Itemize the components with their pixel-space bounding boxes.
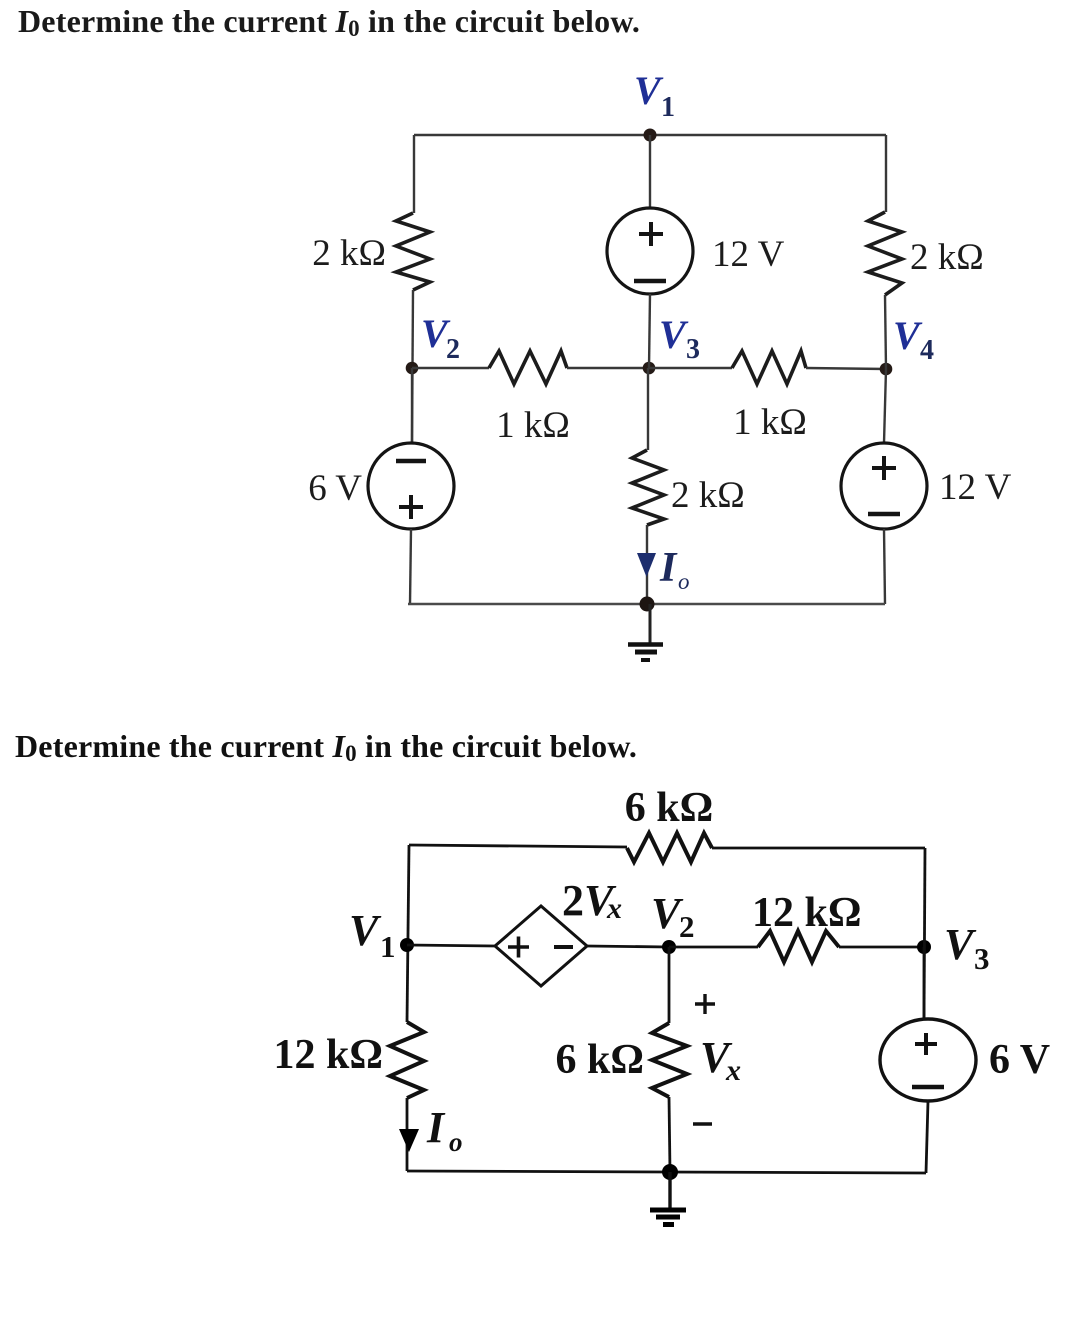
wire V2 to 1k [412,367,489,369]
wire V4 down to 12V right [884,369,886,443]
source 12V right [841,443,1012,529]
wire 2k to V4 [885,295,886,369]
wire 2k mid to bottom node [646,525,648,604]
current arrow Io circuit2 [399,1103,463,1157]
ground circuit2 [650,1172,686,1225]
source 6V circuit2 [880,1019,1050,1101]
label Vx [700,1033,741,1087]
wire left vertical circuit2 [407,845,409,1022]
svg-text:V: V [893,313,923,358]
wire right vertical upper [885,135,887,212]
svg-text:12 kΩ: 12 kΩ [752,890,862,936]
wire 6k mid to bottom node [669,1097,670,1172]
wire 12V right to bottom [884,529,885,604]
wire 1k to V3 [567,367,649,369]
svg-text:o: o [678,569,690,594]
node V3 circuit2 [917,920,990,976]
wire bottom circuit2 [407,1171,926,1173]
wire source to V3 [649,294,650,368]
wire left vertical to V2 and source [412,290,413,443]
wire 1k to V4 [806,368,886,369]
minus label Vx [693,1122,712,1125]
node V3 [643,312,700,374]
svg-text:6 V: 6 V [308,468,362,509]
svg-text:2: 2 [679,909,695,944]
resistor 1k right [732,351,807,443]
wire bottom circuit1 [408,603,885,606]
node V1 circuit2 [349,906,414,964]
wire mid vertical V1 to source [649,135,651,208]
svg-text:Determine the current I0 in th: Determine the current I0 in the circuit … [15,728,637,766]
wire 6V to bottom [410,529,411,604]
svg-text:V: V [659,312,689,357]
svg-text:2 kΩ: 2 kΩ [671,475,745,516]
svg-text:x: x [606,892,622,925]
wire 12k down to corner [406,1098,409,1171]
svg-text:1 kΩ: 1 kΩ [733,402,807,443]
resistor 12k horizontal [752,890,862,962]
wire V3 down to 2k mid [647,368,649,450]
wire 12k to V3 [839,946,924,949]
svg-text:V: V [349,906,382,955]
resistor 1k left [489,351,570,446]
wire top circuit2 [409,845,925,848]
source 6V left [308,443,454,529]
svg-text:2 kΩ: 2 kΩ [312,233,386,274]
dependent source 2Vx diamond [495,876,622,986]
svg-text:6 V: 6 V [989,1037,1050,1083]
svg-text:12 V: 12 V [939,467,1012,508]
svg-text:o: o [449,1127,463,1157]
node V1 [634,68,675,142]
wire V2 down to 6V source [411,368,413,443]
svg-text:12 V: 12 V [712,234,785,275]
svg-text:2: 2 [446,334,460,365]
plus label Vx [695,994,715,1014]
node bottom circuit1 [640,597,655,612]
resistor 2k middle [632,450,745,525]
wire 6V to bottom corner [926,1101,928,1173]
wire V1 to diamond [407,945,495,946]
wire diamond to V2 [587,946,669,947]
wire top circuit1 [414,134,886,136]
current arrow Io circuit1 [637,545,690,594]
svg-text:Determine the current I0 in th: Determine the current I0 in the circuit … [18,3,640,41]
ground circuit1 [628,604,663,660]
source 12V top [607,208,785,294]
resistor 12k left vertical [274,1022,425,1098]
node V2 circuit2 [651,889,695,954]
node bottom circuit2 [662,1164,678,1180]
svg-text:12 kΩ: 12 kΩ [274,1032,384,1078]
svg-text:1: 1 [380,929,396,964]
svg-text:3: 3 [974,941,990,976]
svg-text:I: I [659,545,678,591]
node V2 [406,311,460,374]
svg-text:1: 1 [661,92,675,123]
svg-text:V: V [944,920,977,969]
wire V3 down to 6V [923,947,926,1020]
svg-text:2 kΩ: 2 kΩ [910,237,984,278]
wire right vertical circuit2 [924,848,925,1020]
svg-text:3: 3 [686,334,700,365]
wire V2 down to 6k mid [668,947,671,1023]
resistor 6k top [625,785,714,862]
wire V2 to 12k [669,946,758,949]
wire V3 to 1k right [649,367,732,369]
wire left vertical upper [413,135,415,213]
svg-text:V: V [634,68,664,113]
resistor 2k left [312,213,430,290]
resistor 6k middle vertical [556,1023,688,1097]
svg-text:6 kΩ: 6 kΩ [556,1037,645,1083]
svg-text:6 kΩ: 6 kΩ [625,785,714,831]
node V4 [880,313,934,375]
svg-text:x: x [725,1054,741,1087]
svg-text:1 kΩ: 1 kΩ [496,405,570,446]
resistor 2k right [868,212,984,295]
svg-text:4: 4 [920,335,934,366]
svg-text:I: I [426,1103,446,1152]
